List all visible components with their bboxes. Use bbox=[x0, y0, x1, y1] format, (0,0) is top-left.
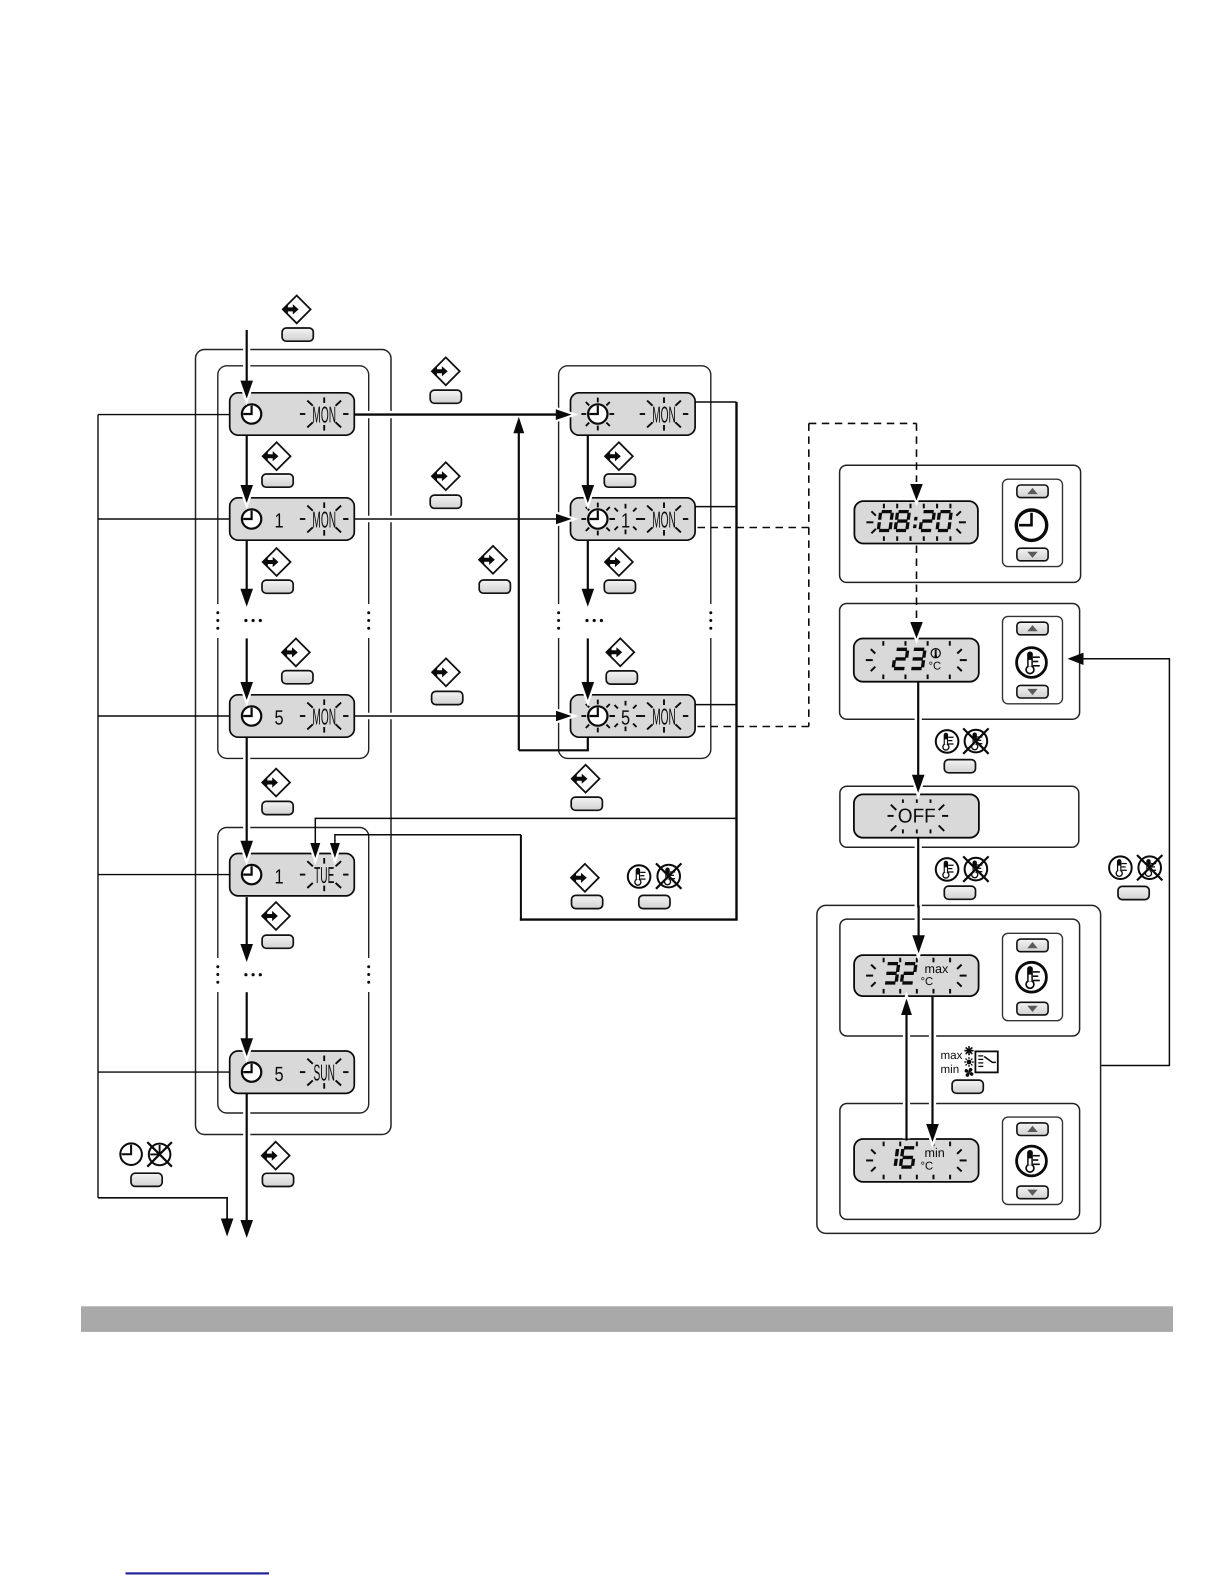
clock icon bottom left bbox=[120, 1143, 142, 1165]
icon sun bbox=[964, 1057, 974, 1067]
svg-text:max: max bbox=[925, 962, 949, 976]
button panel thermo up/down bbox=[1003, 616, 1063, 703]
label SUN blinking bbox=[314, 1060, 335, 1086]
wire stub to MON box bbox=[98, 414, 230, 416]
select key right MON to 1MON (select key icon) bbox=[604, 442, 633, 470]
select key right 1MON to dots button bbox=[604, 580, 635, 593]
frame edge ellipsis gaps TUE section bbox=[216, 958, 220, 992]
icon fan bbox=[965, 1068, 974, 1077]
select key 5MON to TUE (select key icon) bbox=[262, 769, 291, 797]
wire legend box bottom edge bbox=[520, 918, 738, 920]
panel time set bbox=[840, 465, 1081, 582]
LCD temp 23 blinking bbox=[854, 639, 979, 682]
svg-text:min: min bbox=[941, 1063, 960, 1076]
arrow return A into TUE box bbox=[312, 842, 319, 843]
svg-text:1: 1 bbox=[274, 865, 283, 888]
clock icon MON box bbox=[242, 404, 261, 423]
label MON blinking bbox=[652, 402, 676, 428]
arrow max LCD down into min LCD bbox=[929, 998, 936, 1124]
blink marks temp LCD bbox=[882, 641, 884, 646]
clock cancel button bottom left bbox=[131, 1173, 162, 1186]
ellipsis dots MON section bbox=[244, 619, 247, 622]
thermo cancel button OFF to max bbox=[944, 886, 975, 899]
thermo crossed icon OFF to max bbox=[963, 856, 988, 881]
select key top entry button bbox=[282, 328, 313, 341]
dashed wire top run to clock panel bbox=[809, 422, 917, 424]
arrow return B into TUE box bbox=[332, 842, 339, 843]
rays OFF blinking bbox=[902, 799, 904, 803]
inner frame TUE-SUN section bbox=[218, 828, 369, 1114]
digits 16 bbox=[895, 1148, 915, 1167]
frame edge ellipsis gaps MON section bbox=[216, 604, 220, 638]
LCD OFF blinking bbox=[854, 794, 979, 837]
panel temperature set bbox=[840, 604, 1080, 720]
arrow 1 TUE to ellipsis bbox=[243, 899, 250, 944]
button panel clock up/down bbox=[1003, 479, 1063, 566]
arrow 1 MON to ellipsis bbox=[243, 542, 250, 589]
svg-text:5: 5 bbox=[274, 1063, 283, 1086]
label MON blinking bbox=[652, 704, 676, 730]
thermo crossed icon right return path bbox=[1137, 855, 1162, 880]
panel OFF bbox=[840, 786, 1079, 847]
select key MON to 1MON (select key icon) bbox=[262, 442, 291, 470]
label digit 1 blinking bbox=[621, 510, 630, 533]
label min bbox=[925, 1146, 945, 1160]
wire stub to 5 SUN box bbox=[98, 1071, 230, 1073]
arrow up from min LCD to max LCD bbox=[903, 1015, 910, 1139]
thermo icon OFF to max bbox=[936, 858, 959, 881]
select key top entry (select key icon) bbox=[282, 296, 311, 324]
svg-text:1: 1 bbox=[274, 510, 283, 533]
arrow left loop exit to bottom bbox=[226, 1218, 228, 1220]
select key row MON between columns (select key icon) bbox=[431, 357, 460, 385]
wire left loop bottom to exit arrow bbox=[98, 1198, 227, 1218]
gray separator bar bbox=[81, 1306, 1173, 1332]
button panel min up/down bbox=[1003, 1117, 1063, 1204]
svg-text:MON: MON bbox=[312, 402, 336, 428]
arrow MON row to right column (thick) bbox=[356, 411, 556, 418]
wire return from right 5 MON box bbox=[519, 737, 588, 750]
wire return line A toward TUE box bbox=[315, 818, 736, 842]
clock icon 5 SUN box bbox=[242, 1062, 261, 1081]
display box 5 SUN bbox=[230, 1051, 355, 1093]
button max-min toggle bbox=[952, 1080, 983, 1093]
thermo icon min panel bbox=[1017, 1146, 1047, 1176]
select key row 5MON between columns (select key icon) bbox=[431, 658, 460, 686]
svg-text:5: 5 bbox=[621, 707, 630, 730]
frame edge ellipsis gaps right column bbox=[557, 604, 561, 638]
wire return into thermo panel bbox=[1084, 659, 1170, 1066]
dashed arrow clock panel to temp panel LCD bbox=[916, 546, 918, 620]
clock icon 1 MON box bbox=[242, 509, 261, 528]
svg-text:OFF: OFF bbox=[898, 806, 936, 828]
label digit 1 bbox=[274, 865, 283, 888]
clock icon 1 TUE box bbox=[242, 865, 261, 884]
select key legend button bbox=[572, 895, 603, 908]
select key TUE section (select key icon) bbox=[261, 902, 290, 930]
label MON blinking bbox=[312, 402, 336, 428]
button panel max up/down bbox=[1003, 933, 1063, 1020]
select key TUE section button bbox=[262, 935, 293, 948]
digits 32 bbox=[885, 964, 916, 983]
select key right dots to 5MON button bbox=[606, 671, 637, 684]
thermo icon button panel bbox=[1017, 648, 1047, 678]
select key row 1MON between columns button bbox=[430, 495, 461, 508]
arrow ellipsis to 5 SUN bbox=[243, 994, 250, 1038]
thermo cancel button 23 to OFF bbox=[944, 760, 975, 773]
wire return line B toward TUE box bbox=[335, 835, 521, 842]
arrow into max LCD bbox=[915, 907, 922, 935]
thermo crossed icon 23 to OFF bbox=[963, 728, 988, 753]
dashed wire from right 1 MON box bbox=[698, 527, 809, 529]
arrow right 1 MON to ellipsis bbox=[584, 542, 591, 589]
display box right MON (clock blinking) bbox=[571, 393, 696, 435]
wire left selector vertical bbox=[97, 415, 99, 1198]
svg-text:°C: °C bbox=[921, 1161, 934, 1173]
dashed wire riser bbox=[808, 423, 810, 726]
select key below right 5MON (select key icon) bbox=[571, 765, 600, 793]
clock crossed icon bottom left bbox=[147, 1142, 172, 1167]
outer frame left column (weekday program loop) bbox=[196, 350, 392, 1135]
wire collector vertical bbox=[735, 402, 737, 919]
label digit 1 bbox=[274, 510, 283, 533]
select key dots row between columns button bbox=[479, 580, 510, 593]
select key below SUN (select key icon) bbox=[261, 1142, 290, 1170]
mini thermo indicator 23 bbox=[931, 649, 940, 658]
wire stub to 1 TUE box bbox=[98, 874, 230, 876]
label celsius max bbox=[921, 976, 934, 988]
wire legend box left edge bbox=[520, 835, 522, 921]
thermo icon max panel bbox=[1017, 962, 1047, 992]
select key legend (select key icon) bbox=[570, 864, 599, 892]
select key dots row between columns (select key icon) bbox=[478, 546, 507, 574]
label digit 5 blinking bbox=[621, 707, 630, 730]
label digit 5 bbox=[274, 1063, 283, 1086]
label celsius 23 bbox=[929, 661, 942, 673]
thermo crossed icon legend bbox=[656, 863, 681, 888]
svg-text:MON: MON bbox=[652, 402, 676, 428]
svg-text:1: 1 bbox=[621, 510, 630, 533]
select key right MON to 1MON button bbox=[604, 474, 635, 487]
label MON blinking bbox=[312, 507, 336, 533]
svg-text:min: min bbox=[925, 1146, 945, 1160]
dashed wire from right 5 MON box bbox=[698, 726, 809, 728]
clock icon blinking bbox=[588, 509, 607, 528]
svg-text:5: 5 bbox=[274, 707, 283, 730]
svg-text:°C: °C bbox=[929, 661, 942, 673]
label digit 5 bbox=[274, 707, 283, 730]
wire from right MON box to collector bbox=[695, 401, 736, 403]
icon snowflake bbox=[964, 1046, 973, 1055]
label TUE blinking bbox=[314, 862, 334, 888]
outer frame right column (time program edit) bbox=[559, 366, 711, 759]
select key row MON between columns button bbox=[430, 390, 461, 403]
display box 1 MON bbox=[230, 498, 355, 540]
arrow ellipsis to right 5 MON bbox=[584, 640, 591, 682]
ellipsis dots TUE section bbox=[244, 973, 247, 976]
svg-text:MON: MON bbox=[312, 507, 336, 533]
select key 5MON to TUE button bbox=[262, 801, 293, 814]
svg-text:SUN: SUN bbox=[314, 1060, 335, 1086]
display box MON bbox=[230, 393, 355, 435]
select key dots to 5MON button bbox=[282, 671, 313, 684]
svg-text:MON: MON bbox=[312, 704, 336, 730]
thermo cancel button legend bbox=[639, 895, 670, 908]
label max bbox=[925, 962, 949, 976]
select key 1MON to dots (select key icon) bbox=[262, 548, 291, 576]
select key dots to 5MON (select key icon) bbox=[281, 639, 310, 667]
wire stub to 5 MON box bbox=[98, 715, 230, 717]
wire from right 1 MON box to collector bbox=[695, 506, 736, 508]
outer frame max-min temp bbox=[817, 905, 1101, 1233]
thermo icon legend bbox=[628, 865, 651, 888]
display box right 5 MON (all blinking) bbox=[571, 695, 696, 737]
ellipsis dots right column bbox=[585, 619, 588, 622]
svg-text:°C: °C bbox=[921, 976, 934, 988]
blink marks min LCD bbox=[883, 1142, 885, 1147]
digits 23 bbox=[893, 649, 925, 668]
clock icon button panel bbox=[1016, 510, 1046, 540]
select key below SUN button bbox=[262, 1173, 293, 1186]
LCD min 16 blinking bbox=[854, 1139, 979, 1182]
display box 5 MON bbox=[230, 695, 355, 737]
arrow ellipsis to 5 MON bbox=[243, 640, 250, 682]
arrow 23 to OFF bbox=[915, 684, 922, 775]
footer rule blue bbox=[126, 1572, 270, 1574]
wire from right 5 MON box to collector bbox=[695, 704, 736, 706]
digits 08:20 bbox=[878, 512, 951, 531]
select key right dots to 5MON (select key icon) bbox=[606, 638, 635, 666]
dashed arrow into clock panel LCD bbox=[916, 423, 918, 482]
blink marks max LCD bbox=[883, 958, 885, 963]
thermo icon 23 to OFF bbox=[936, 730, 959, 753]
thermo cancel button right return path bbox=[1118, 886, 1149, 899]
arrow return up into MON row bbox=[518, 432, 520, 750]
inner frame MON section bbox=[218, 366, 369, 759]
blink marks time LCD bbox=[883, 504, 885, 509]
thermo icon right return path bbox=[1109, 856, 1132, 879]
label OFF bbox=[898, 806, 936, 828]
svg-text:TUE: TUE bbox=[314, 862, 334, 888]
arrow 5 SUN exit to bottom bbox=[243, 1095, 250, 1220]
display box right 1 MON (all blinking) bbox=[571, 498, 696, 540]
LCD max 32 blinking bbox=[854, 955, 979, 996]
panel max temp 32 bbox=[840, 919, 1080, 1036]
label max snowflake legend bbox=[941, 1049, 963, 1062]
select key row 1MON between columns (select key icon) bbox=[431, 462, 460, 490]
arrowhead into thermo button panel bbox=[1068, 653, 1084, 665]
LCD time 08:20 blinking bbox=[854, 501, 978, 543]
svg-text:max: max bbox=[941, 1049, 963, 1062]
panel min temp 16 bbox=[840, 1104, 1080, 1220]
arrow entry into MON box bbox=[243, 332, 250, 381]
select key 1MON to dots button bbox=[262, 580, 293, 593]
clock icon blinking bbox=[588, 404, 607, 423]
clock icon 5 MON box bbox=[242, 706, 261, 725]
arrow 5 MON to 1 TUE bbox=[243, 740, 250, 841]
arrow right MON to right 1 MON bbox=[584, 437, 591, 485]
icon setback schedule bbox=[975, 1051, 997, 1072]
svg-text:MON: MON bbox=[652, 704, 676, 730]
select key below right 5MON button bbox=[571, 797, 602, 810]
select key row 5MON between columns button bbox=[432, 691, 463, 704]
arrow MON to 1 MON bbox=[243, 437, 250, 485]
display box 1 TUE bbox=[230, 854, 355, 896]
arrow OFF to max temp panel bbox=[915, 840, 922, 936]
select key MON to 1MON button bbox=[262, 474, 293, 487]
label MON blinking bbox=[312, 704, 336, 730]
select key right 1MON to dots (select key icon) bbox=[604, 548, 633, 576]
svg-text:MON: MON bbox=[652, 507, 676, 533]
clock icon blinking bbox=[588, 706, 607, 725]
label MON blinking bbox=[652, 507, 676, 533]
arrow 1 MON row to right column bbox=[356, 516, 556, 523]
arrow 5 MON row to right column bbox=[356, 713, 556, 720]
wire stub to 1 MON box bbox=[98, 518, 230, 520]
label celsius min bbox=[921, 1161, 934, 1173]
